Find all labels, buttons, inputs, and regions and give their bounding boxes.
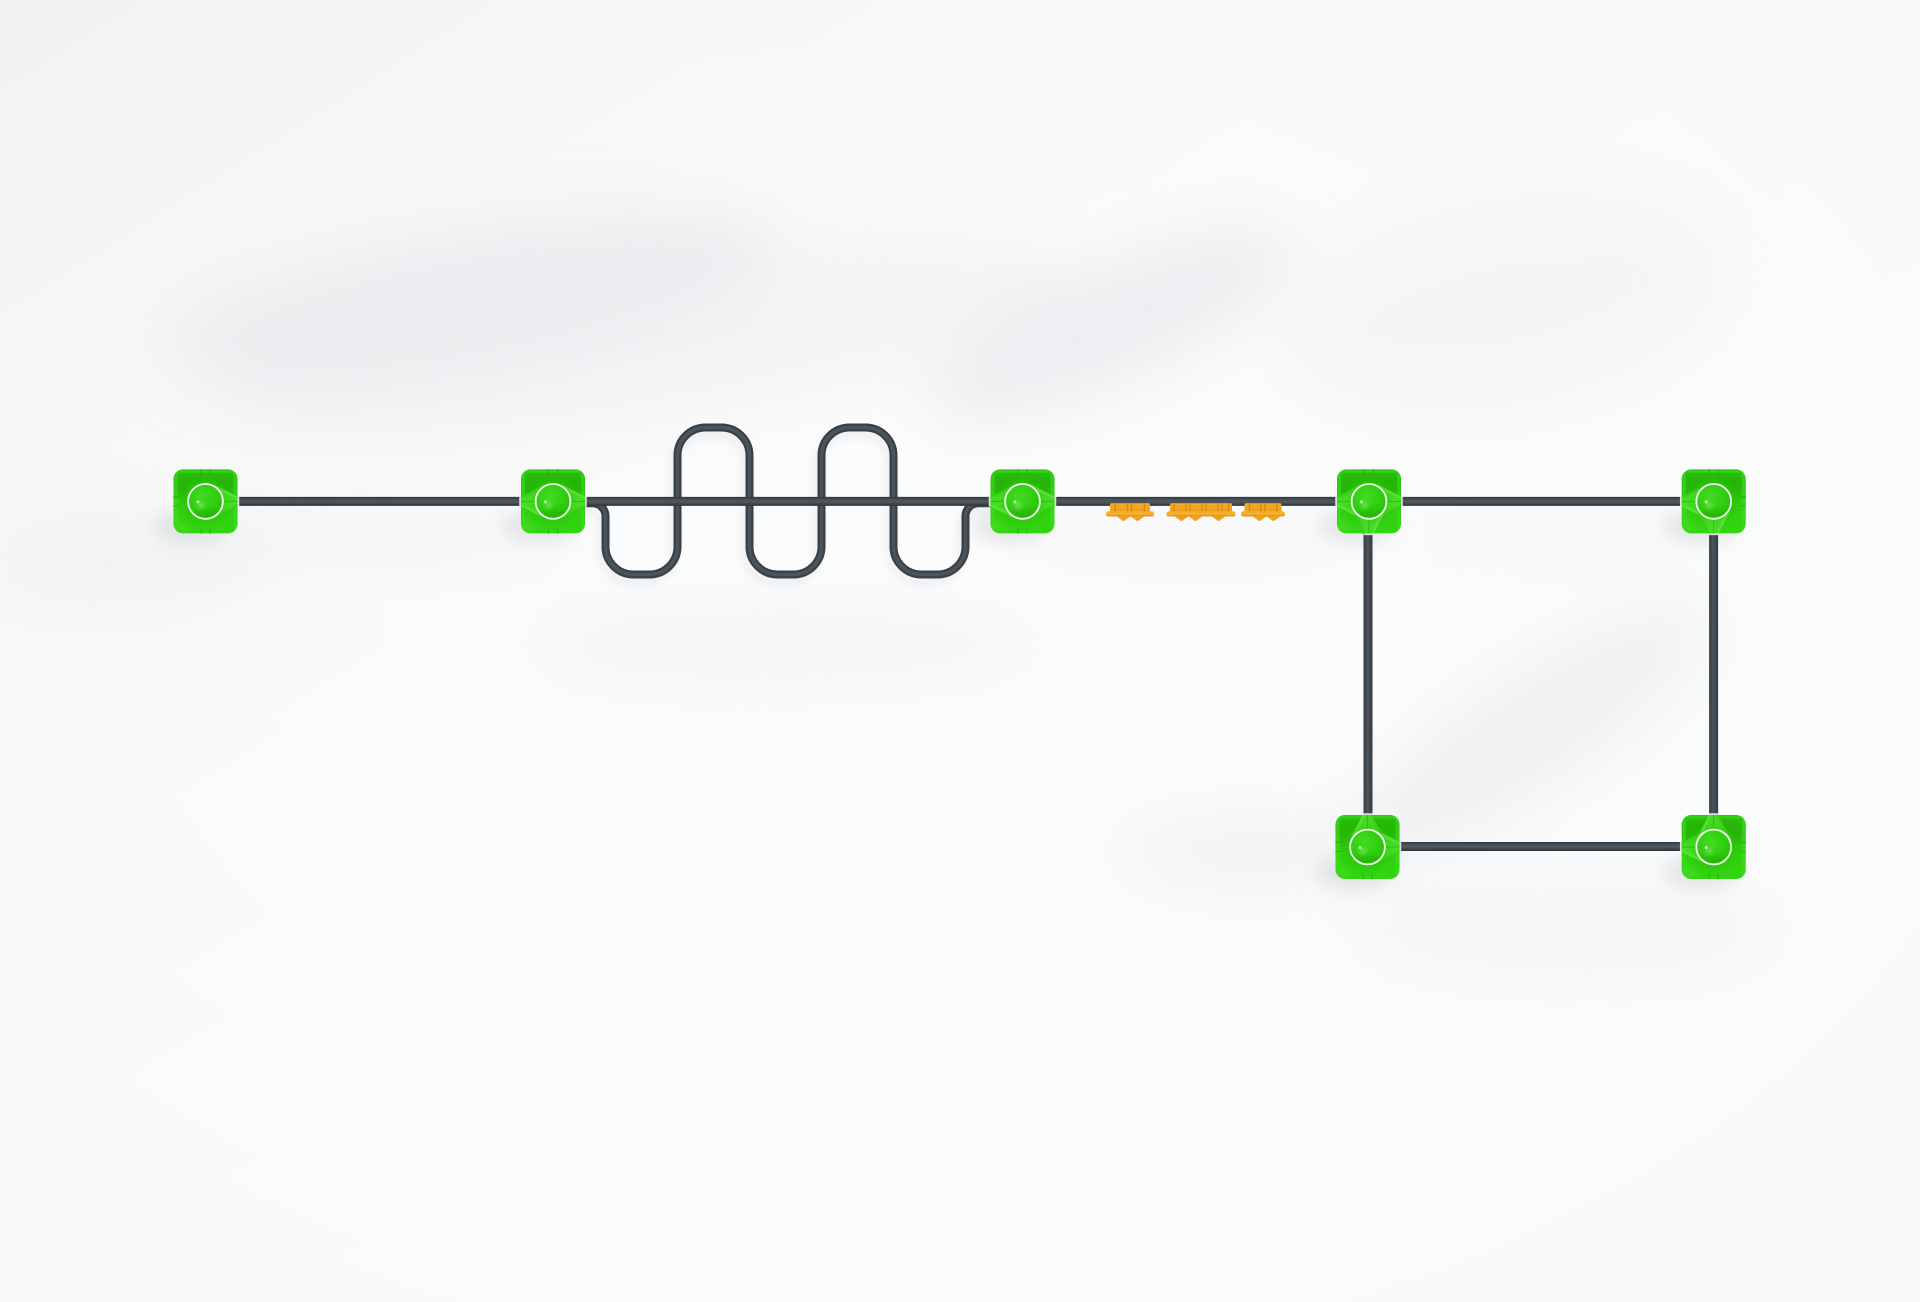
right vertical rod B5-B7 (1709, 505, 1718, 845)
contact shadow of block B1 (154, 508, 230, 544)
contact shadow of block B7 (1663, 854, 1739, 890)
shadow of right vertical rod (1703, 530, 1709, 830)
block B4 (1336, 469, 1402, 534)
soft under-rail band B4-B5 (1380, 516, 1700, 564)
block B5 (1681, 469, 1746, 534)
contact shadow of block B3 (971, 508, 1047, 544)
soft shadow cloud below square bottom rail (1345, 878, 1775, 978)
bottom rail B6-B7 (1369, 842, 1713, 851)
contact shadow of block B5 (1663, 508, 1739, 544)
soft shadow cloud inside square frame (1313, 565, 1737, 905)
soft shadow cloud upper-left of rail (153, 177, 787, 419)
serpentine rod (weaving rail), passes behind main rail (586, 428, 994, 575)
soft shadow cloud below serpentine (535, 603, 1045, 687)
orange clip cluster K2 (1167, 503, 1236, 521)
block B2 (520, 469, 586, 534)
soft shadow cloud left of block B1 (0, 514, 260, 610)
soft under-rail band B1-B2 (190, 512, 570, 564)
soft shadow cloud left of block B6 (1115, 812, 1385, 892)
shadow of left vertical rod (1358, 530, 1364, 830)
soft shadow cloud above rail B4-B5 (1254, 157, 1745, 454)
contact shadow of block B2 (502, 508, 578, 544)
shadow of bottom rail (1400, 853, 1680, 859)
orange clip cluster K1 (1106, 503, 1154, 521)
soft under-rail band B3-B4 (1010, 514, 1370, 566)
shadow of serpentine (582, 435, 990, 582)
soft shadow cloud above block B3 (903, 189, 1317, 461)
main rail B1 to B5 (206, 497, 1713, 506)
left vertical rod B4-B6 (1364, 505, 1373, 845)
soft shadow cloud broad above rail (213, 199, 1087, 481)
block B1 (173, 469, 238, 534)
block B3 (990, 469, 1056, 534)
orange clip cluster K3 (1241, 503, 1285, 521)
shadow of main rail (240, 509, 1700, 514)
contact shadow of block B4 (1318, 508, 1394, 544)
block B7 (1681, 814, 1746, 879)
contact shadow of block B6 (1316, 854, 1392, 890)
block B6 (1335, 814, 1400, 879)
